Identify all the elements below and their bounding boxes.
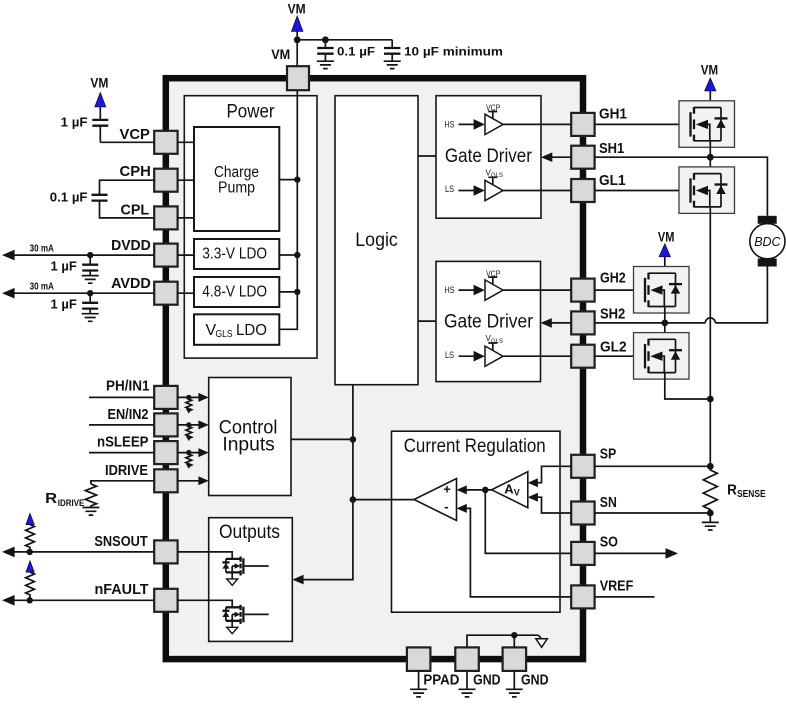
svg-text:Charge: Charge xyxy=(214,164,259,181)
svg-text:4.8-V LDO: 4.8-V LDO xyxy=(202,283,267,300)
3.3-V LDO block xyxy=(194,239,279,269)
wire Logic to Gate Driver 1 xyxy=(418,155,436,157)
node spine/comparator junction xyxy=(350,496,357,503)
arrow nFAULT out xyxy=(2,595,15,606)
pin AVDD pad xyxy=(154,282,177,305)
VM supply arrow (bridge 1, blue) xyxy=(705,78,716,91)
transistor output FET (SNSOUT, open drain) xyxy=(178,552,269,585)
svg-text:BDC: BDC xyxy=(754,235,781,249)
buffer HS (gate driver 1) xyxy=(445,104,504,135)
node SH2 junction xyxy=(661,320,668,327)
wire DVDD pad to 3.3-V LDO xyxy=(178,254,194,256)
svg-text:AVDD: AVDD xyxy=(111,275,151,292)
pullup arrow (SNSOUT, blue) xyxy=(26,513,34,524)
Logic block xyxy=(335,96,418,385)
svg-text:GLS: GLS xyxy=(216,329,233,340)
transistor Q2 (low-side FET bridge 1) xyxy=(679,167,735,214)
svg-text:IDRIVE: IDRIVE xyxy=(58,498,85,508)
svg-text:VCP: VCP xyxy=(120,126,150,143)
svg-text:SP: SP xyxy=(600,446,617,463)
svg-text:Logic: Logic xyxy=(355,230,398,251)
svg-text:PH/IN1: PH/IN1 xyxy=(106,378,150,395)
pin VM pad xyxy=(287,66,309,90)
svg-text:0.1 µF: 0.1 µF xyxy=(337,44,375,58)
transistor Q3 (high-side FET bridge 2) xyxy=(634,267,690,314)
ground (10 uF VM) xyxy=(384,61,401,68)
wire GH2 to Q3 gate xyxy=(595,289,646,291)
svg-text:GH2: GH2 xyxy=(600,270,626,287)
arrow SH1 into gate driver 1 xyxy=(541,152,552,162)
pin IDRIVE pad xyxy=(154,469,177,492)
capacitor 1 uF (VCP) xyxy=(99,107,101,142)
wire PH/IN1 external xyxy=(89,396,154,398)
svg-text:SNSOUT: SNSOUT xyxy=(94,533,147,550)
svg-text:GL2: GL2 xyxy=(600,339,627,356)
wire GND2 riser xyxy=(513,635,515,647)
wire IDRIVE external to RIDRIVE xyxy=(91,481,154,484)
svg-text:V: V xyxy=(514,488,520,498)
wire VM branch to decoupling caps xyxy=(297,39,392,41)
svg-text:LS: LS xyxy=(445,184,454,194)
svg-text:Outputs: Outputs xyxy=(219,522,280,543)
svg-text:0.1 µF: 0.1 µF xyxy=(50,190,88,205)
pin nFAULT pad xyxy=(154,589,177,612)
Gate Driver 2 block xyxy=(436,261,541,381)
svg-text:30 mA: 30 mA xyxy=(30,243,54,254)
svg-text:Gate Driver: Gate Driver xyxy=(444,312,534,333)
svg-text:HS: HS xyxy=(445,285,455,295)
ground (DVDD cap) xyxy=(82,276,99,284)
wire GND1 to ground xyxy=(466,671,468,689)
pin GH2 pad xyxy=(571,279,594,302)
svg-text:Gate Driver: Gate Driver xyxy=(445,146,533,167)
wire CPH pad loop to flying cap xyxy=(100,180,155,195)
wire AV bottom input from SN xyxy=(537,497,572,513)
VGLS LDO block xyxy=(194,314,279,345)
ground (0.1 uF VM) xyxy=(317,61,334,68)
pullup arrow (nFAULT, blue) xyxy=(26,561,34,572)
svg-text:+: + xyxy=(443,482,451,497)
resistor pulldown (nSLEEP) xyxy=(186,450,192,469)
wire PPAD to ground xyxy=(418,671,420,689)
wire comparator output to spine xyxy=(353,499,414,501)
ground (PPAD) xyxy=(410,689,427,697)
svg-text:VM: VM xyxy=(658,229,675,245)
buffer LS (gate driver 2) xyxy=(445,334,503,366)
wire VCP pad to charge pump xyxy=(178,141,194,143)
svg-text:EN/IN2: EN/IN2 xyxy=(108,406,149,423)
buffer LS (gate driver 1) xyxy=(445,169,503,201)
svg-text:SN: SN xyxy=(600,494,617,511)
wire nSLEEP external xyxy=(89,452,154,454)
pin SH2 pad xyxy=(571,311,594,334)
ground (GND2) xyxy=(506,689,523,697)
chip body outline xyxy=(166,78,583,659)
node GND net junction xyxy=(511,632,517,638)
wire VM to Q1 drain xyxy=(709,91,711,108)
svg-text:SH1: SH1 xyxy=(599,140,624,157)
wire CPH pad to charge pump xyxy=(178,179,194,181)
buffer HS (gate driver 2) xyxy=(445,269,504,300)
wire SO to AV output node xyxy=(485,490,571,554)
wire CPL pad to charge pump xyxy=(178,217,194,219)
svg-text:GND: GND xyxy=(473,672,501,689)
wire PH/IN1 into control inputs xyxy=(178,396,201,398)
node charge pump/VM xyxy=(294,176,300,182)
wire SH2 pad into gate driver 2 xyxy=(550,322,572,324)
node bridge2 sense junction xyxy=(707,396,714,403)
svg-text:R: R xyxy=(727,482,737,499)
svg-text:SH2: SH2 xyxy=(600,306,625,323)
pin DVDD pad xyxy=(154,244,177,267)
svg-text:VM: VM xyxy=(701,62,718,78)
svg-text:nSLEEP: nSLEEP xyxy=(97,434,149,451)
pin CPL pad xyxy=(154,206,177,229)
pin VREF pad xyxy=(571,585,594,608)
signal-ground marker xyxy=(538,635,541,639)
svg-text:GH1: GH1 xyxy=(599,105,627,122)
wire nFAULT external xyxy=(6,599,154,601)
node 3.3-V LDO/VM xyxy=(294,252,300,258)
svg-text:SENSE: SENSE xyxy=(737,489,766,500)
svg-text:CPL: CPL xyxy=(121,202,150,219)
Power block xyxy=(184,96,317,358)
pin GND pad 1 xyxy=(455,647,479,671)
wire Logic to Gate Driver 2 xyxy=(418,320,436,322)
wire charge pump to VM line xyxy=(279,179,297,181)
svg-text:1 µF: 1 µF xyxy=(51,296,77,311)
arrow SH2 into gate driver 2 xyxy=(541,318,552,328)
Control Inputs block xyxy=(209,378,291,496)
wire AVDD external xyxy=(6,292,154,294)
resistor pullup SNSOUT xyxy=(26,525,35,552)
resistor pulldown (PH/IN1) xyxy=(186,395,192,414)
4.8-V LDO block xyxy=(194,277,279,307)
pin GL2 pad xyxy=(571,345,594,368)
node SP/RSENSE junction xyxy=(707,463,714,470)
wire LS buffer to GL2 pad xyxy=(503,355,571,357)
transistor Q1 (high-side FET bridge 1) xyxy=(679,101,735,148)
svg-text:VM: VM xyxy=(271,46,290,62)
Current Regulation block xyxy=(392,431,561,612)
pin GL1 pad xyxy=(571,179,594,202)
transistor output FET (nFAULT, open drain) xyxy=(178,600,269,633)
arrow AVDD out xyxy=(2,288,15,299)
wire Q2 source to sense node xyxy=(709,207,711,466)
svg-text:VM: VM xyxy=(90,74,108,90)
wire + input from AV output node xyxy=(465,489,492,491)
ground (GND1) xyxy=(459,689,476,697)
transistor Q4 (low-side FET bridge 2) xyxy=(634,333,690,380)
wire GH1 to Q1 gate xyxy=(595,123,691,125)
svg-text:VM: VM xyxy=(288,0,306,16)
arrow into AV top input xyxy=(528,478,538,487)
capacitor 0.1 uF (VM) xyxy=(324,40,326,61)
svg-text:HS: HS xyxy=(445,120,455,130)
resistor RIDRIVE xyxy=(85,484,96,508)
node AV output junction xyxy=(482,487,489,494)
node DVDD cap junction xyxy=(87,252,93,258)
arrow into - input xyxy=(457,504,467,513)
wire AVDD pad to 4.8-V LDO xyxy=(178,292,194,294)
resistor RSENSE xyxy=(703,466,717,513)
node 4.8-V LDO/VM xyxy=(294,289,300,295)
wire AV top input from SP xyxy=(537,466,572,482)
svg-text:LDO: LDO xyxy=(236,322,267,339)
charge pump block xyxy=(194,127,279,231)
svg-text:CPH: CPH xyxy=(120,163,151,180)
wire GND2 to ground xyxy=(513,671,515,689)
svg-text:Inputs: Inputs xyxy=(222,435,274,456)
Outputs block xyxy=(209,518,293,642)
wire VM to Q3 drain xyxy=(664,257,666,274)
arrow DVDD out xyxy=(2,250,15,261)
svg-text:R: R xyxy=(45,490,57,507)
arrow IDRIVE xyxy=(198,476,208,485)
wire SH2 to motor (with hop) xyxy=(595,267,768,323)
wire SH1 pad into gate driver 1 xyxy=(550,156,571,158)
arrow PH/IN1 xyxy=(198,393,208,402)
ground (AVDD cap) xyxy=(82,314,99,322)
wire EN/IN2 external xyxy=(89,424,154,426)
node cap1 junction xyxy=(322,36,329,43)
pin SH1 pad xyxy=(571,146,594,169)
node SN/RSENSE junction xyxy=(707,510,714,517)
capacitor 1 uF (AVDD) xyxy=(89,293,91,314)
VM supply arrow (bridge 2, blue) xyxy=(659,244,670,257)
op-amp comparator (current regulation) xyxy=(414,479,457,521)
svg-text:SO: SO xyxy=(600,534,619,551)
wire Q1 source to Q2 drain xyxy=(709,141,711,174)
capacitor 10 uF minimum (VM) xyxy=(391,40,393,61)
node SNSOUT pullup junction xyxy=(27,549,33,555)
svg-text:1 µF: 1 µF xyxy=(61,115,88,130)
arrow SO out xyxy=(666,548,679,559)
capacitor 0.1 uF (CPH-CPL) xyxy=(92,195,108,201)
wire Q4 source to sense node xyxy=(665,373,711,399)
arrow into + input xyxy=(457,485,467,494)
arrow SNSOUT out xyxy=(2,547,15,558)
pin SN pad xyxy=(571,502,594,525)
wire SN to RSENSE bottom xyxy=(595,512,711,514)
amplifier AV xyxy=(492,472,528,508)
svg-text:IDRIVE: IDRIVE xyxy=(105,462,148,479)
node SH1 junction xyxy=(707,154,714,161)
wire DVDD external xyxy=(6,254,154,256)
motor BDC xyxy=(750,216,785,267)
pin PH/IN1 pad xyxy=(154,386,177,409)
arrow into Outputs xyxy=(292,575,303,585)
svg-text:GL1: GL1 xyxy=(599,172,626,189)
Gate Driver 1 block xyxy=(436,96,541,219)
ground (RSENSE) xyxy=(702,513,719,530)
wire VM arrow to VM pad xyxy=(296,31,298,67)
wire SH1 to motor xyxy=(595,157,768,216)
svg-text:-: - xyxy=(444,499,448,514)
svg-text:A: A xyxy=(504,482,514,497)
svg-text:GND: GND xyxy=(521,672,549,689)
svg-text:10 µF minimum: 10 µF minimum xyxy=(404,44,503,58)
pin SO pad xyxy=(571,542,594,565)
node VM junction xyxy=(294,36,301,43)
svg-text:Pump: Pump xyxy=(218,179,255,196)
ground (RIDRIVE) xyxy=(82,508,99,516)
svg-text:Power: Power xyxy=(227,101,276,122)
wire Q3 source to Q4 drain xyxy=(664,307,666,340)
node spine/control-inputs junction xyxy=(350,436,357,443)
svg-text:VREF: VREF xyxy=(600,578,634,595)
pin GH1 pad xyxy=(571,113,594,136)
wire 4.8-V LDO to VM line xyxy=(279,291,297,293)
wire LS buffer to GL1 pad xyxy=(503,190,571,192)
wire Logic down-spine xyxy=(302,385,353,580)
wire SO output xyxy=(595,552,667,554)
pin nSLEEP pad xyxy=(154,441,177,464)
wire SP to RSENSE xyxy=(595,465,711,467)
wire GL2 to Q4 gate xyxy=(595,355,646,357)
svg-text:nFAULT: nFAULT xyxy=(95,581,149,598)
svg-text:DVDD: DVDD xyxy=(111,237,151,254)
pin SNSOUT pad xyxy=(154,540,177,563)
capacitor 1 uF (DVDD) xyxy=(89,255,91,276)
pin CPH pad xyxy=(154,169,177,192)
wire GND1 to internal gnd net xyxy=(467,635,538,647)
wire IDRIVE into control inputs xyxy=(178,480,201,482)
wire 3.3-V LDO to VM line xyxy=(279,254,297,256)
wire GL1 to Q2 gate xyxy=(595,190,691,192)
wire - input from VREF xyxy=(465,508,571,597)
svg-text:3.3-V LDO: 3.3-V LDO xyxy=(202,245,267,262)
svg-text:1 µF: 1 µF xyxy=(51,258,77,273)
node AVDD cap junction xyxy=(87,290,93,296)
wire HS buffer to GH1 pad xyxy=(503,123,571,125)
svg-text:PPAD: PPAD xyxy=(423,672,459,689)
arrow nSLEEP xyxy=(198,448,208,457)
pin PPAD pad xyxy=(407,647,431,671)
wire EN/IN2 into control inputs xyxy=(178,424,201,426)
resistor pullup nFAULT xyxy=(26,572,35,600)
arrow into AV bottom input xyxy=(528,493,538,502)
pin EN/IN2 pad xyxy=(154,413,177,436)
resistor pulldown (EN/IN2) xyxy=(186,422,192,441)
svg-text:LS: LS xyxy=(445,350,454,360)
wire HS buffer to GH2 pad xyxy=(503,289,571,291)
svg-text:30 mA: 30 mA xyxy=(30,281,54,292)
VM supply arrow (VCP, blue) xyxy=(95,93,106,107)
wire nSLEEP into control inputs xyxy=(178,452,201,454)
VM supply arrow (blue) xyxy=(292,16,303,31)
wire VM pad into chip (to power blocks) xyxy=(279,90,297,329)
pin GND pad 2 xyxy=(503,647,526,671)
pin SP pad xyxy=(571,455,594,478)
pin VCP pad xyxy=(154,131,177,154)
wire VREF external xyxy=(595,596,655,598)
svg-text:Current Regulation: Current Regulation xyxy=(404,436,546,457)
node nFAULT pullup junction xyxy=(27,597,33,603)
wire cap to VCP pad xyxy=(100,141,154,143)
arrow EN/IN2 xyxy=(198,420,208,429)
wire Control Inputs to spine xyxy=(291,438,353,440)
wire SNSOUT external xyxy=(6,551,154,553)
